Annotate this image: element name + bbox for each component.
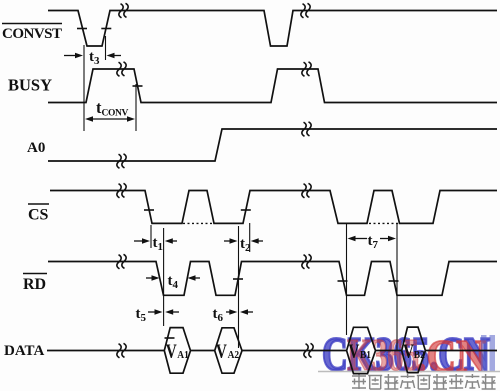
node DATA bubble VA2 [215,328,242,373]
wire CONVST break1 [118,3,129,18]
timing labels [89,49,425,362]
wire RD break2 [301,254,312,269]
watermark tagline glyphs [352,374,366,389]
node DATA bubble VB1 [347,327,376,373]
node ext t7-left x346.5 [346,223,348,335]
arrow t1 right [172,240,177,242]
dimension arrows [64,53,396,315]
tick CONVST rise [101,28,111,30]
node ext t1-left x151 [150,225,152,248]
svg-text:A0: A0 [27,140,45,156]
node ext long x163.6 [163,228,165,326]
tick marks [77,29,399,339]
svg-text:V: V [216,339,227,362]
wire A0 break1 [116,154,127,169]
tick CS rise1 [241,209,251,211]
wire DATA break1 [116,343,127,358]
wire A0 break2 [301,122,312,137]
tick RD fall4 [389,280,399,282]
watermark logo bars [481,335,487,372]
node ext long x238.5 [238,226,240,348]
tick BUSY fall [133,85,143,87]
svg-text:CS: CS [28,207,49,224]
wire DATA break2 [303,343,314,358]
svg-text:V: V [403,339,414,362]
node CS dotted low right [369,222,398,224]
arrow t4 left [146,277,153,279]
wire CS break2 [301,183,312,198]
arrow tCONV [92,118,110,120]
svg-text:A2: A2 [228,350,240,362]
svg-text:B1: B1 [360,350,371,362]
wire RD waveform [48,262,497,296]
arrow t1 left [134,240,143,242]
wire BUSY break1 [116,62,127,77]
signal label CONVST [2,24,62,360]
arrow t6 right [247,311,253,313]
wire A0 waveform [48,129,497,161]
arrow t5 right [172,311,179,313]
arrow t4 right [195,277,201,279]
node ext t3-right x105.5 [105,36,107,60]
node ext t7-right x397 [396,223,398,350]
svg-text:B2: B2 [414,350,425,362]
arrow t6 left [226,311,230,313]
watermark chinese tagline [352,374,496,389]
wire BUSY waveform [48,69,497,103]
svg-text:BUSY: BUSY [8,76,52,95]
wire CONVST waveform [48,11,497,47]
wire CONVST break2 [300,3,311,18]
wire RD break1 [116,254,127,269]
svg-text:V: V [166,339,177,362]
arrow t5 left [148,311,156,313]
wire CS waveform [50,191,497,224]
watermark underline [318,371,500,373]
tick RD fall3 [338,280,348,282]
svg-text:DATA: DATA [4,343,44,359]
arrow t2 left [224,240,231,242]
tick CONVST fall [77,28,87,30]
node ext tconv-right x136 [135,84,137,131]
tick CS fall1 [144,209,154,211]
arrow t3 left [64,55,76,57]
node DATA bubble VB2 [402,327,426,373]
svg-text:A1: A1 [177,350,189,362]
tick VA1 slant [165,337,175,339]
tick RD rise2 [233,278,243,280]
svg-text:.CN: .CN [416,330,486,381]
svg-text:CONVST: CONVST [2,26,62,42]
extension lines [84,36,397,350]
svg-text:RD: RD [23,276,46,293]
node CS dotted low left [183,222,213,224]
wire BUSY break2 [301,62,312,77]
arrow t7 [355,238,368,240]
wire DATA centerline [47,350,497,352]
svg-text:V: V [348,339,359,362]
arrow t2 right [258,240,263,242]
node DATA bubble VA1 [164,328,190,374]
arrow t3 right [114,55,122,57]
node ext tconv-left x84 [83,45,85,131]
break marks [116,3,314,358]
node ext t2-right x250.5 [249,223,251,252]
wire CS break1 [116,183,127,198]
